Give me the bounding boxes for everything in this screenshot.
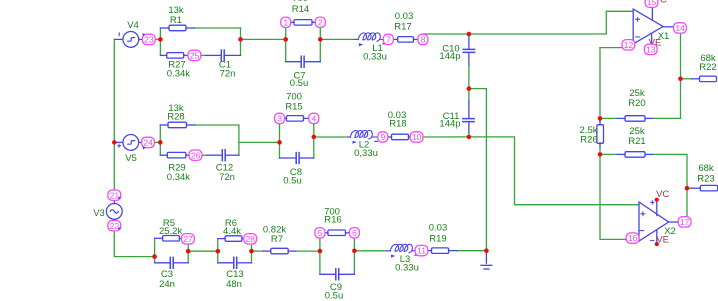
svg-text:11: 11 [417,246,426,256]
wire: R21 left green part [600,153,618,155]
node 2 [315,17,325,27]
capacitor C10 [463,34,474,65]
svg-text:R7: R7 [271,234,283,245]
resistor R15 [285,116,309,122]
node 3 [275,113,285,123]
junction: V3 feed into block1 [152,254,157,259]
svg-text:R16: R16 [324,215,341,226]
wire: R23 branch green part [687,187,691,189]
resistor R29 [160,152,189,158]
svg-text:15: 15 [647,0,657,7]
inductor L2 [347,130,378,143]
wire: R15 block left vertical (node 3 down to C8) [279,124,281,159]
svg-text:24n: 24n [159,279,175,290]
svg-text:13: 13 [646,45,656,55]
svg-text:7: 7 [386,35,391,45]
wire: row1 main, R14 block to L1 [320,38,355,40]
wire: node23 to junction A1 [155,38,160,40]
resistor R17 [393,37,419,43]
wire: R15 block right vertical (node 4 down to C8) [313,124,315,159]
op-amp X2 [639,200,678,244]
svg-text:68k: 68k [698,163,714,174]
node 23 [142,34,155,44]
svg-text:25.2k: 25.2k [159,226,182,237]
svg-text:144p: 144p [439,119,460,130]
svg-text:2: 2 [318,17,323,27]
junction: ground node [484,248,489,253]
capacitor C11 [463,101,474,133]
wire: row2 main, block to R15 block [239,141,280,143]
resistor R6 [218,236,245,242]
V3 source arrow mark near node 22 [118,227,121,230]
resistor R28 [160,122,195,128]
wire: C10 lower green segment to mid junction [468,65,470,89]
capacitor C7 [286,56,321,67]
wire: feedback rail x=600 upper (node12 to R26 top) [599,48,601,122]
wire: mid junction jog to ground rail [469,88,487,90]
op-amp X2 VC power plus mark [651,201,654,204]
node 9 [378,132,388,142]
junction: block3 output [352,249,357,254]
capacitor C12 [207,150,239,161]
svg-text:4.4k: 4.4k [223,226,241,237]
wire: R1 block right vertical [240,28,242,55]
svg-text:22: 22 [110,221,120,231]
wire: feedback rail x=600 lower (R26 bottom to X2 inverting input) [600,147,627,240]
voltage source V3 [106,201,122,231]
op-amp X1 [633,8,674,45]
node 14 [674,23,687,33]
node 26 [189,150,202,160]
resistor R7 [263,248,296,254]
svg-text:0.03: 0.03 [429,223,448,234]
junction: R22 tap on X1 output rail [678,77,683,82]
wire: node14 output rail down to R20 row [680,33,682,118]
wire: R28 block right vertical [238,125,240,155]
wire: R14 block right vertical (node 2 down to C7) [319,27,321,61]
svg-text:0.5u: 0.5u [283,175,302,186]
svg-text:10: 10 [412,132,422,142]
wire: block3 left vertical node5-C9 [319,238,321,274]
svg-text:6: 6 [352,228,357,238]
junction: R15 block left on main [277,140,282,145]
node 1 [281,17,291,27]
svg-text:R23: R23 [697,173,714,184]
node 6 [349,228,359,238]
svg-text:4: 4 [312,114,317,124]
junction: block2 output [249,249,254,254]
junction: V5 on left rail [112,140,117,145]
svg-text:0.33u: 0.33u [395,263,419,274]
svg-text:5: 5 [318,228,323,238]
svg-text:0.34k: 0.34k [167,69,190,80]
V5 source arrow mark near node 24 [142,147,145,150]
node 4 [309,113,319,123]
svg-text:R28: R28 [167,111,184,122]
svg-text:26: 26 [191,150,201,160]
junction: block1 output [186,249,191,254]
wire: block2 right vertical node28-C13 [251,243,253,262]
svg-text:V3: V3 [93,208,105,219]
svg-text:0,33u: 0,33u [354,148,378,159]
wire: row3 block3 to L3 [354,250,386,252]
voltage source V4 [115,32,143,48]
wire: left source rail V4-V5-node21 [113,39,115,190]
svg-text:48n: 48n [226,279,242,290]
svg-text:R17: R17 [394,21,411,32]
wire: row3 feed vertical into block1 [154,238,156,262]
node 27 [182,234,195,244]
op-amp X1 plus input mark [636,17,640,21]
svg-text:0.5u: 0.5u [290,78,309,89]
wire: block2 left vertical [217,239,219,263]
svg-text:R14: R14 [292,4,309,15]
svg-text:3: 3 [277,114,282,124]
svg-text:R1: R1 [170,15,182,26]
junction: R15 block right (jogged up) [312,135,317,140]
svg-text:12: 12 [624,40,634,50]
resistor R21 [618,152,653,158]
svg-text:R21: R21 [628,136,645,147]
wire: R20 left green part [600,117,618,119]
resistor R14 [291,20,316,26]
node 15 [645,0,658,7]
power pin dot VE of X2 [655,242,659,246]
node 5 [315,228,325,238]
resistor R23 [691,185,718,191]
svg-text:28: 28 [246,234,256,244]
capacitor C3 [155,257,189,268]
svg-text:16: 16 [628,233,638,243]
svg-text:17: 17 [680,217,690,227]
capacitor C1 [206,50,240,61]
junction: R26/R21 node [598,152,603,157]
resistor R1 [160,25,194,31]
wire: R19 to ground junction [457,250,487,252]
wire: C11 bottom green segment [468,133,470,137]
svg-text:R19: R19 [429,234,446,245]
resistor R20 [618,116,653,122]
resistor R16 [325,230,350,236]
svg-text:72n: 72n [219,172,235,183]
svg-text:144p: 144p [439,51,460,62]
svg-text:R15: R15 [285,102,302,113]
inductor L1 [355,33,385,46]
V3 source arrow mark near node 21 [118,196,121,199]
svg-text:23: 23 [144,35,154,45]
svg-text:V5: V5 [125,153,137,164]
wire: block3 right vertical node6-C9 [353,238,355,274]
voltage source V5 [115,135,142,151]
svg-text:14: 14 [675,23,685,33]
wire: row3 block2 to R7 [252,250,264,252]
svg-text:1: 1 [283,17,288,27]
svg-text:0.5u: 0.5u [325,291,344,301]
ground symbol [481,251,492,269]
junction: C10 top on row1 wire [467,32,472,37]
wire: short green stub after node 26 [202,154,208,156]
svg-text:0.34k: 0.34k [167,172,190,183]
wire: V5 terminal junction on rail (row2) [113,141,115,143]
node 10 [410,132,423,142]
node 13 [644,44,657,54]
op-amp X2 VE power minus mark [651,239,654,241]
capacitor C13 [218,257,252,268]
node 21 [108,190,121,200]
wire: short green stub after node 25 [201,54,207,56]
resistor R19 [427,248,457,254]
junction: R23 tap on X2 output [685,186,690,191]
wire: X1 inverting input from feedback rail [600,47,626,49]
junction: R20/R26 node [598,116,603,121]
junction: node24/R28 block input [158,140,163,145]
svg-text:R22: R22 [699,62,716,73]
node 8 [418,34,428,44]
wire: C11 top green segment [468,89,470,101]
capacitor C8 [280,153,314,164]
svg-text:27: 27 [183,234,193,244]
resistor R26 (vertical) [597,118,604,146]
op-amp X2 plus input mark [641,212,645,216]
wire: row2 main, R15 block to L2 [314,136,346,138]
svg-text:R18: R18 [389,119,406,130]
node 25 [188,50,201,60]
junction: R14 block left on main [283,37,288,42]
resistor R5 [155,236,183,242]
wire: row2 node10 to C11 junction to X2 plus input [423,137,638,205]
op-amp X2 minus input mark [640,230,644,232]
junction: C11 bottom on row2 wire [467,135,472,140]
inductor L3 [387,244,418,257]
node 7 [383,34,393,44]
wire: row1 main, block1 to R14 block [241,38,286,40]
wire: ground rail vertical down to row3 [485,89,487,251]
wire: row1 after node8, jog up and run to X1 plus-input riser [423,11,633,39]
wire: R28 block left vertical [159,125,161,155]
svg-text:9: 9 [381,132,386,142]
svg-text:R26: R26 [580,134,597,145]
svg-text:R20: R20 [628,98,645,109]
wire: R14 block left vertical (node 1 down to C7) [285,27,287,61]
junction: block2 input [216,249,221,254]
wire: block1 right vertical node27-C3 [187,243,189,262]
wire: R22 branch green part [681,78,692,80]
node 24 [142,137,155,147]
node 12 [622,40,635,50]
node 22 [108,221,121,231]
junction: R14 block right on main [318,37,323,42]
node 17 [678,217,691,227]
capacitor C9 [320,269,355,280]
svg-text:25: 25 [190,51,200,61]
wire: R7 to block3 [296,250,320,252]
V4 source arrow mark near node 23 [142,33,145,36]
svg-text:72n: 72n [220,69,236,80]
junction: C10/C11 midpoint [467,86,472,91]
wire: R1 block left vertical [159,28,161,55]
node 28 [244,234,257,244]
junction: R1 block output [238,37,243,42]
node 11 [415,245,428,255]
power pin dot VC of X2 [655,198,659,202]
svg-text:21: 21 [110,190,120,200]
svg-text:0,33u: 0,33u [363,52,387,63]
op-amp X1 minus input mark [636,36,640,38]
svg-text:8: 8 [421,35,426,45]
svg-text:24: 24 [143,138,153,148]
wire: node24 to junction A2 [154,141,160,143]
svg-text:V4: V4 [127,20,139,31]
junction: node23/R1 block input [158,37,163,42]
wire: R20 right green to output rail [653,117,681,119]
resistor R27 [160,53,188,59]
node 16 [626,233,639,243]
resistor R18 [387,134,412,140]
wire: R21 right run to X2 output node [653,154,688,217]
wire: rail node22 to row3 feed corner [114,231,154,257]
wire: R28 top branch green part [195,124,239,126]
wire: R1 top branch green part [195,27,241,29]
wire: row3 block1 to block2 [188,250,218,252]
resistor R22 [692,76,717,82]
junction: block3 input [318,249,323,254]
